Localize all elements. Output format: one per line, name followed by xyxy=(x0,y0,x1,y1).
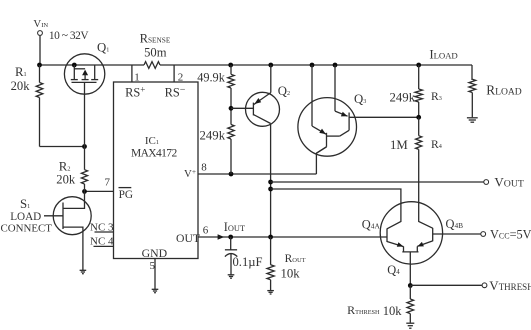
wire Q4A collector line xyxy=(271,189,401,229)
junction R1/Q1 gate xyxy=(82,144,87,149)
junction 49.9k on rail xyxy=(228,63,233,68)
ground under capacitor xyxy=(228,275,235,278)
arrow IOUT on OUT wire xyxy=(218,234,225,240)
svg-text:1M: 1M xyxy=(390,138,408,152)
resistor R4 1M xyxy=(390,117,442,152)
junction Q3 right emitter on rail xyxy=(333,63,338,68)
switch S1 MOSFET load connect xyxy=(1,191,92,270)
junction Q4A collector branch xyxy=(268,187,273,192)
junction Q4 emitters/RTHRESH xyxy=(408,283,413,288)
resistor R1 20k xyxy=(11,65,43,147)
wire pin 7 PG xyxy=(85,190,114,192)
node VOUT terminal xyxy=(484,180,489,185)
transistor Q2 xyxy=(246,65,291,126)
wire OUT pin 6 line xyxy=(198,236,387,238)
ground under ROUT xyxy=(267,291,274,294)
svg-text:GND: GND xyxy=(142,246,168,260)
ground under S1 xyxy=(80,270,87,273)
svg-text:CONNECT: CONNECT xyxy=(1,223,53,235)
junction R3 on rail xyxy=(416,63,421,68)
node 49.9k/249k junction to Q2 base xyxy=(229,106,234,111)
svg-text:8: 8 xyxy=(201,162,207,174)
resistor RSENSE 50m xyxy=(140,32,171,69)
svg-text:OUT: OUT xyxy=(176,232,200,245)
wire R1 bottom to gate line xyxy=(40,146,85,148)
svg-text:PG: PG xyxy=(119,189,133,201)
wire VIN down to rail xyxy=(39,36,41,65)
wire R4 down to Q4B collector xyxy=(419,149,433,228)
ground under RLOAD xyxy=(467,118,478,122)
svg-text:MAX4172: MAX4172 xyxy=(131,148,177,160)
junction Q3 left emitter on rail xyxy=(310,63,315,68)
node VCC=5V terminal xyxy=(481,232,486,237)
ground under pin5 xyxy=(152,289,159,292)
wire Q3 right base to R3/R4 junction xyxy=(349,116,419,118)
junction capacitor on OUT wire xyxy=(228,235,233,240)
resistor 49.9k xyxy=(197,65,234,125)
wire Q4B base to VCC xyxy=(433,233,481,235)
ground under RTHRESH xyxy=(406,323,414,328)
resistor R2 20k xyxy=(56,160,87,192)
svg-text:20k: 20k xyxy=(56,173,76,187)
svg-text:6: 6 xyxy=(203,225,209,237)
svg-text:10k: 10k xyxy=(281,266,301,280)
junction R2/S1 drain/pin7 xyxy=(82,189,87,194)
junction Q2 emitter on rail xyxy=(268,63,273,68)
pin NC4 stub xyxy=(94,245,114,247)
wire VTHRESH line xyxy=(410,284,482,286)
resistor RTHRESH 10k xyxy=(347,286,413,323)
svg-text:249k: 249k xyxy=(390,90,416,104)
transistor Q1 (P-MOSFET) xyxy=(64,41,109,95)
svg-text:LOAD: LOAD xyxy=(10,211,41,223)
transistor Q3 dual PNP xyxy=(298,65,366,156)
resistor RLOAD xyxy=(469,79,522,117)
wire pin 8 V+ line xyxy=(198,173,316,175)
node VTHRESH terminal xyxy=(482,283,487,288)
wire V+ corner up to Q3 collector xyxy=(316,147,326,174)
junction VIN/R1 on rail xyxy=(37,63,42,68)
junction ROUT on OUT wire xyxy=(268,235,273,240)
transistor Q4 dual NPN xyxy=(362,202,463,286)
wire VOUT line xyxy=(271,181,484,183)
resistor R3 249k xyxy=(390,65,442,117)
wire Q1 gate down xyxy=(84,82,86,169)
capacitor C1 0.1uF xyxy=(225,237,263,275)
pin 1 stub RS+ xyxy=(131,65,133,82)
svg-text:20k: 20k xyxy=(11,79,31,93)
svg-text:10 ~ 32V: 10 ~ 32V xyxy=(49,30,89,42)
wire rail corner to RLOAD xyxy=(471,65,473,79)
pin 2 stub RS- xyxy=(173,65,175,82)
svg-text:49.9k: 49.9k xyxy=(197,71,226,85)
wire Q2 collector down xyxy=(270,124,272,238)
resistor ROUT 10k xyxy=(267,237,306,290)
svg-text:249k: 249k xyxy=(200,129,226,143)
pin NC3 stub xyxy=(95,231,114,233)
wire top rail xyxy=(40,64,473,66)
op-amp U1 IC1 MAX4172 box xyxy=(90,82,200,260)
svg-text:VCC=5V: VCC=5V xyxy=(490,227,531,241)
pin 5 GND stub xyxy=(154,259,156,290)
junction R3/R4/Q3 base xyxy=(416,115,421,120)
svg-text:0.1µF: 0.1µF xyxy=(233,255,263,269)
svg-text:50m: 50m xyxy=(144,45,167,59)
junction 249k bottom on V+ line xyxy=(229,172,234,177)
junction VOUT branch xyxy=(268,180,273,185)
node VIN terminal xyxy=(33,18,89,42)
svg-text:10k: 10k xyxy=(383,304,403,318)
junction Q1 source on rail xyxy=(72,63,77,68)
resistor 249k (left) xyxy=(200,125,235,175)
svg-text:7: 7 xyxy=(105,177,111,189)
